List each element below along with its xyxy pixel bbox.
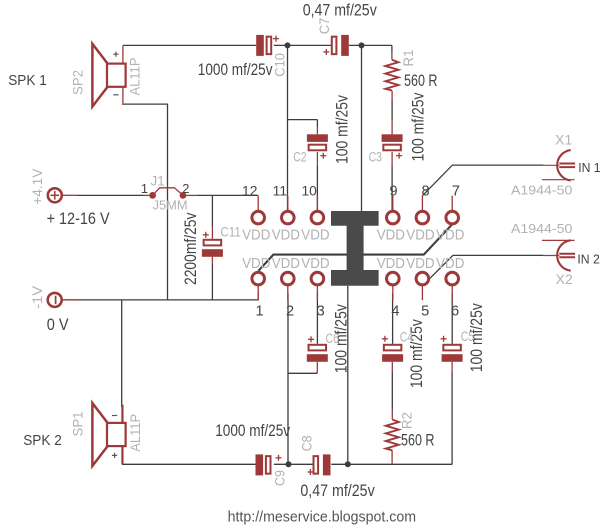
svg-text:4: 4 bbox=[391, 303, 399, 319]
svg-text:2: 2 bbox=[182, 181, 189, 196]
svg-text:11: 11 bbox=[273, 184, 287, 199]
svg-text:1000 mf/25v: 1000 mf/25v bbox=[215, 422, 291, 440]
svg-text:560 R: 560 R bbox=[401, 431, 435, 449]
svg-text:VDD: VDD bbox=[301, 227, 329, 243]
svg-text:C10: C10 bbox=[273, 53, 288, 77]
svg-text:C8: C8 bbox=[300, 435, 315, 451]
svg-text:6: 6 bbox=[451, 303, 459, 319]
svg-text:VDD: VDD bbox=[242, 256, 270, 272]
svg-text:3: 3 bbox=[317, 303, 325, 319]
svg-text:http://meservice.blogspot.com: http://meservice.blogspot.com bbox=[228, 510, 417, 526]
svg-text:-1V: -1V bbox=[30, 286, 45, 309]
svg-text:VDD: VDD bbox=[436, 227, 464, 243]
svg-text:10: 10 bbox=[301, 184, 317, 199]
svg-text:1000 mf/25v: 1000 mf/25v bbox=[198, 61, 273, 79]
svg-text:12: 12 bbox=[242, 184, 257, 199]
svg-text:VDD: VDD bbox=[406, 256, 434, 272]
svg-text:VDD: VDD bbox=[242, 227, 270, 243]
svg-text:AL11P: AL11P bbox=[128, 57, 143, 95]
svg-text:100 mf/25v: 100 mf/25v bbox=[409, 92, 428, 161]
svg-text:AL11P: AL11P bbox=[128, 414, 143, 452]
svg-text:C2: C2 bbox=[293, 150, 306, 165]
svg-text:0,47 mf/25v: 0,47 mf/25v bbox=[300, 482, 375, 500]
svg-text:IN 2: IN 2 bbox=[577, 251, 599, 266]
svg-text:A1944-50: A1944-50 bbox=[511, 182, 572, 197]
svg-text:X2: X2 bbox=[556, 272, 573, 287]
svg-text:1: 1 bbox=[255, 303, 263, 319]
svg-text:0,47 mf/25v: 0,47 mf/25v bbox=[303, 1, 378, 19]
svg-text:C3: C3 bbox=[369, 150, 382, 165]
svg-text:C4: C4 bbox=[400, 330, 414, 345]
svg-text:R2: R2 bbox=[399, 412, 414, 429]
svg-text:J1: J1 bbox=[151, 173, 165, 188]
svg-text:100 mf/25v: 100 mf/25v bbox=[333, 95, 352, 164]
svg-text:C11: C11 bbox=[220, 224, 240, 239]
svg-text:VDD: VDD bbox=[377, 256, 405, 272]
svg-text:R1: R1 bbox=[401, 50, 416, 67]
svg-text:C6: C6 bbox=[326, 331, 339, 346]
svg-text:5: 5 bbox=[421, 303, 429, 319]
svg-text:VDD: VDD bbox=[272, 227, 300, 243]
svg-text:VDD: VDD bbox=[301, 256, 329, 272]
svg-text:0 V: 0 V bbox=[47, 316, 69, 334]
svg-text:7: 7 bbox=[452, 184, 460, 200]
svg-text:SP2: SP2 bbox=[71, 70, 86, 95]
svg-text:2: 2 bbox=[286, 303, 294, 319]
svg-text:8: 8 bbox=[422, 184, 430, 200]
svg-text:+ 12-16 V: + 12-16 V bbox=[47, 210, 110, 228]
svg-text:IN 1: IN 1 bbox=[578, 160, 600, 175]
svg-text:2200mf/25v: 2200mf/25v bbox=[181, 212, 200, 285]
svg-text:VDD: VDD bbox=[406, 227, 434, 243]
svg-text:C7: C7 bbox=[317, 18, 332, 35]
svg-text:+4.1V: +4.1V bbox=[30, 169, 45, 205]
svg-text:VDD: VDD bbox=[377, 227, 405, 243]
svg-text:A1944-50: A1944-50 bbox=[511, 221, 572, 236]
svg-text:9: 9 bbox=[389, 184, 397, 200]
svg-text:560 R: 560 R bbox=[404, 72, 438, 90]
svg-text:SP1: SP1 bbox=[71, 412, 86, 437]
svg-text:VDD: VDD bbox=[272, 256, 300, 272]
svg-text:SPK 1: SPK 1 bbox=[8, 73, 47, 89]
svg-text:1: 1 bbox=[141, 181, 148, 196]
svg-text:X1: X1 bbox=[555, 133, 572, 148]
svg-text:SPK 2: SPK 2 bbox=[23, 433, 62, 449]
svg-text:J5MM: J5MM bbox=[153, 199, 188, 213]
svg-text:C9: C9 bbox=[272, 470, 287, 486]
svg-text:C5: C5 bbox=[461, 329, 474, 344]
svg-text:VDD: VDD bbox=[436, 256, 464, 272]
